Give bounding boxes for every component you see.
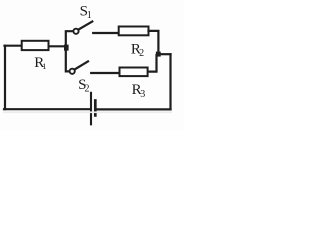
svg-text:1: 1 [42,61,46,71]
wire left side [4,46,6,109]
wire R2 right lead down to node [149,31,159,53]
svg-text:1: 1 [87,10,92,21]
wire R3 right lead up to node [149,55,157,72]
wire R1 right lead to junction [50,45,66,47]
switch S1 blade [78,22,92,30]
svg-text:3: 3 [140,89,145,100]
battery long plate [90,93,92,125]
wire bottom right (battery to corner) [97,108,171,110]
svg-text:2: 2 [139,48,144,59]
wire S2 fixed contact to R3 [91,72,118,74]
wire branch dropper S2 (junction down) [66,48,70,72]
label R1 [34,55,46,71]
label R2 [131,41,144,59]
switch S2 pivot [70,69,75,74]
scan shadow (faint, under bottom wire) [3,111,172,113]
wire node to right side [158,53,171,55]
wire branch riser S1 (junction up) [66,31,73,47]
switch S2 blade [75,61,88,69]
node A (junction left of switches) [64,45,69,51]
battery short plate [94,101,97,116]
wire right side [169,54,171,109]
label S2 [78,77,89,95]
svg-text:2: 2 [85,84,90,95]
resistor R2 [119,27,149,36]
label S1 [80,3,92,21]
resistor R3 [120,68,148,77]
label R3 [132,82,146,100]
wire S1 fixed contact to R2 [93,32,118,34]
switch S1 pivot [73,29,78,34]
wire R1 left lead [5,45,21,47]
node B (junction right, R2/R3) [156,52,161,57]
resistor R1 [22,41,49,50]
wire bottom left (to battery) [4,108,90,110]
